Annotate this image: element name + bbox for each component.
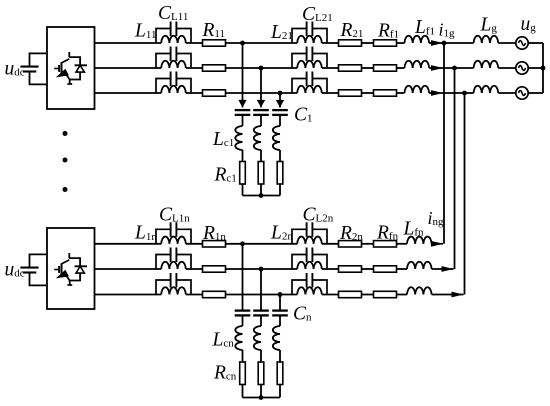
- svg-text:Rc1: Rc1: [214, 165, 237, 186]
- svg-text:R11: R11: [202, 20, 226, 41]
- svg-text:Rfn: Rfn: [376, 223, 399, 244]
- svg-text:ug: ug: [521, 14, 537, 35]
- svg-text:L1n: L1n: [134, 223, 157, 244]
- svg-text:Lc1: Lc1: [212, 129, 234, 150]
- svg-text:Lg: Lg: [480, 15, 498, 36]
- svg-text:R2n: R2n: [339, 223, 363, 244]
- svg-text:i1g: i1g: [439, 19, 456, 39]
- svg-text:CL2n: CL2n: [303, 205, 334, 226]
- svg-text:L21: L21: [270, 22, 293, 43]
- svg-text:CL21: CL21: [302, 4, 333, 25]
- svg-text:Lcn: Lcn: [212, 330, 235, 351]
- svg-text:Rcn: Rcn: [213, 363, 237, 384]
- svg-text:R1n: R1n: [202, 223, 226, 244]
- svg-text:udc: udc: [5, 58, 25, 79]
- svg-text:CL1n: CL1n: [159, 205, 190, 226]
- svg-text:Lfn: Lfn: [403, 219, 425, 240]
- svg-text:CL11: CL11: [158, 3, 188, 24]
- svg-text:Cn: Cn: [293, 304, 312, 325]
- svg-text:ing: ing: [428, 208, 445, 228]
- svg-text:Rf1: Rf1: [377, 21, 399, 42]
- svg-text:R21: R21: [340, 20, 364, 41]
- svg-text:C1: C1: [294, 105, 313, 126]
- svg-text:L11: L11: [134, 21, 156, 42]
- svg-text:Lf1: Lf1: [414, 17, 435, 38]
- svg-text:udc: udc: [5, 259, 25, 280]
- svg-text:L2n: L2n: [270, 223, 293, 244]
